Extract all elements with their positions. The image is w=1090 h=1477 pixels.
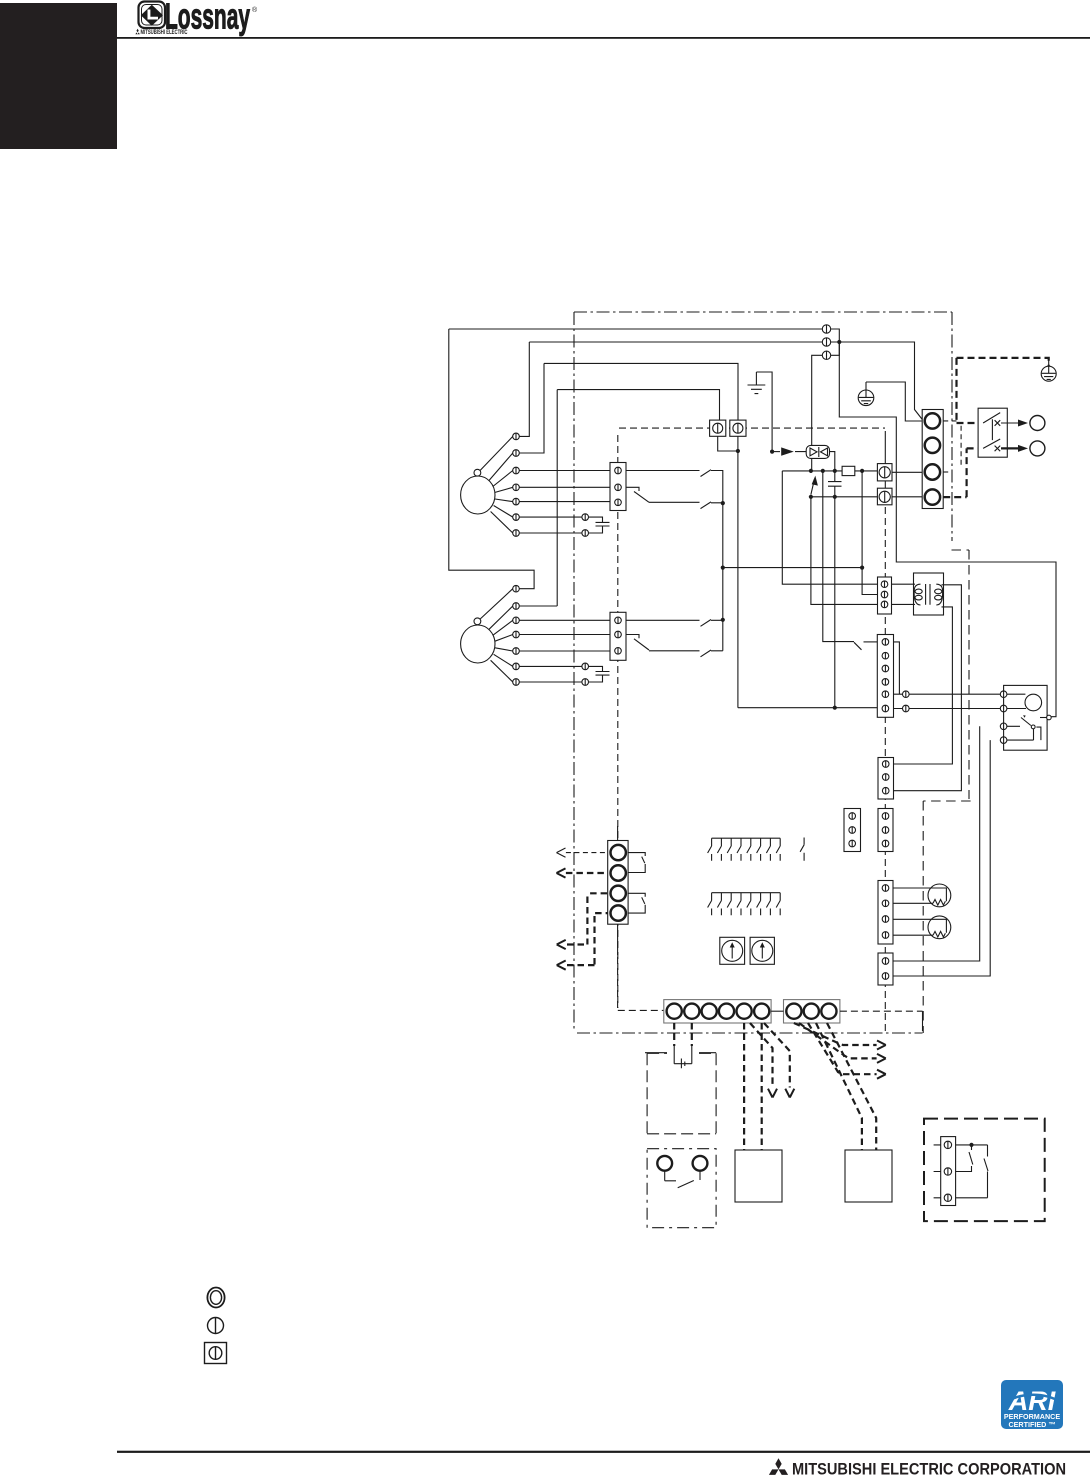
wire to damper feed — [839, 342, 1056, 717]
dashed links CNM to relay — [943, 421, 961, 472]
ground symbol G1 — [748, 372, 766, 394]
M1 terminal 4 — [513, 484, 520, 491]
damper motor circle — [1025, 694, 1042, 711]
single switch — [800, 838, 804, 861]
remote jumper wires — [674, 1023, 692, 1046]
M2 terminal 4 — [513, 631, 520, 638]
varistor Z1 — [795, 445, 835, 471]
M2 phase riser — [556, 390, 558, 606]
M1 leads fanout — [480, 436, 513, 533]
connector CNB — [878, 758, 894, 800]
wire ground to diode node — [756, 372, 772, 452]
DIP switch row 1 — [708, 838, 781, 861]
M1 capacitor wires — [519, 517, 602, 533]
phase rails into fuse squares — [544, 363, 738, 420]
main connector CNM — [922, 410, 943, 509]
motor M1 body — [461, 476, 495, 514]
legend connector circle — [207, 1288, 224, 1308]
RC square terminal U1 — [877, 464, 892, 481]
M2 wires to CN2 — [519, 620, 610, 651]
wire T3 — [812, 342, 840, 471]
rotary switch SW1 — [720, 937, 745, 964]
capacitor C2 — [596, 672, 610, 676]
fuse square F1 — [710, 420, 726, 436]
Mitsubishi Electric small wordmark — [135, 29, 187, 36]
relay block CN4 — [617, 826, 619, 955]
header rule — [117, 37, 1090, 39]
rotary switch SW2 — [750, 937, 774, 964]
power terminal 2 — [822, 338, 830, 346]
damper rail — [738, 707, 877, 709]
switch arrow contact S1 — [811, 479, 815, 495]
M1 terminal 1 — [513, 433, 520, 440]
M1 terminal 3 — [513, 467, 520, 474]
M2 leads fanout — [480, 589, 513, 682]
power terminal 1 — [822, 325, 830, 333]
M2 terminal 7 — [513, 679, 520, 686]
transformer T1 — [914, 573, 944, 615]
remote switch — [665, 1171, 700, 1188]
jumper symbol — [645, 1046, 716, 1068]
thermistor connector CNS — [878, 881, 893, 945]
M2 terminal 3 — [513, 617, 520, 624]
svg-text:MITSUBISHI ELECTRIC CORPORATIO: MITSUBISHI ELECTRIC CORPORATION — [792, 1460, 1066, 1477]
arrow contact — [772, 451, 780, 453]
strip link wire — [771, 1010, 783, 1012]
M1 wires to risers — [519, 342, 529, 436]
svg-text:CERTIFIED ™: CERTIFIED ™ — [1008, 1420, 1055, 1429]
box S2 — [845, 1150, 892, 1202]
capacitor C2 terminals — [582, 663, 589, 670]
U1/U2 joins — [885, 431, 922, 497]
wire G2 to connector — [866, 382, 922, 421]
DIP switch row 2 — [708, 893, 781, 916]
damper aux contact — [1047, 715, 1052, 720]
damper actuator DM — [1004, 685, 1048, 750]
terminal strip TBY — [784, 1000, 840, 1023]
motor M2 top cap — [474, 618, 481, 625]
transformer wires — [892, 584, 916, 604]
M2 terminal 6 — [513, 663, 520, 670]
bold dashed drops to box S1 — [744, 1023, 877, 1150]
motor M2 body — [461, 625, 495, 663]
resistor R1 — [842, 466, 855, 475]
wire F1/F2 join — [718, 436, 738, 707]
wire T2 right to connector — [831, 342, 923, 420]
junction — [837, 340, 841, 344]
thermistor TH2 — [893, 919, 933, 935]
terminal strip TBX — [664, 1000, 771, 1023]
ARI certification logo — [1001, 1380, 1063, 1429]
capacitor C3 — [828, 471, 842, 497]
external box R3 — [924, 1119, 1045, 1222]
M2 terminal 2 — [513, 603, 520, 610]
blade CN6 pin1 — [854, 642, 862, 650]
M2 terminal 5 — [513, 648, 520, 655]
connector CNA pair — [844, 809, 861, 852]
relay outputs — [1001, 422, 1018, 424]
Lossnay logo mark — [139, 2, 166, 29]
wire L2 — [529, 341, 822, 343]
primary top rail — [782, 470, 877, 472]
R3 connector — [941, 1137, 956, 1206]
thermistor TH1 — [893, 888, 933, 903]
outer unit boundary (dash-dot) — [574, 312, 952, 1033]
box S1 — [735, 1150, 782, 1202]
dashed wire to border — [840, 1010, 923, 1012]
wire T1 right — [831, 329, 840, 342]
connector CN2 — [610, 612, 626, 660]
dashed box R1 — [647, 1053, 716, 1134]
svg-text:®: ® — [252, 6, 258, 14]
legend fuse terminal — [205, 1343, 227, 1364]
connector CN1 — [610, 463, 626, 511]
CNP wires to damper — [893, 726, 990, 976]
arrows to remote (left) — [566, 852, 608, 854]
CN1 output wires and switches — [626, 470, 723, 651]
ground circle G2 — [858, 382, 874, 406]
inner control board boundary (dashed) — [618, 428, 886, 1031]
capacitor C1 — [596, 522, 610, 526]
connector CN6 — [877, 635, 893, 718]
RC square terminal U2 — [877, 488, 892, 505]
CN6 right wires — [894, 642, 900, 694]
M1 terminal 6 — [513, 514, 520, 521]
CN4 relay loops — [628, 853, 645, 873]
right arrowheads — [877, 1041, 886, 1050]
Mitsubishi three-diamond mark — [769, 1458, 788, 1475]
drop x822 to CN6 — [823, 471, 854, 642]
power terminal 3 — [822, 351, 830, 359]
footer rule — [117, 1451, 1090, 1453]
rail dots — [809, 469, 813, 473]
R3 wiring — [934, 1145, 941, 1198]
damper switch — [1007, 718, 1034, 741]
M1 terminal 5 — [513, 498, 520, 505]
long drop to damper rail — [834, 497, 836, 708]
ground circle G3 — [1041, 359, 1056, 381]
M2 capacitor wires — [519, 666, 602, 682]
node riser x862 — [862, 471, 877, 595]
rail y567 — [723, 567, 862, 569]
capacitor C1 terminals — [582, 514, 589, 521]
black corner tab — [0, 3, 117, 149]
relay box K1 — [978, 408, 1007, 457]
svg-text:MITSUBISHI ELECTRIC: MITSUBISHI ELECTRIC — [141, 29, 188, 36]
M1 wires to CN1 — [519, 471, 610, 502]
transformer connector CNT — [878, 577, 892, 614]
junction dots — [721, 501, 725, 505]
wire L1 top — [449, 328, 823, 330]
fuse square F2 — [730, 420, 746, 436]
M2 terminal 1 — [513, 585, 520, 592]
primary bottom rail — [811, 496, 878, 498]
remote circles — [657, 1156, 707, 1171]
M1 terminal 7 — [513, 530, 520, 537]
CN2 output wires and switches — [626, 620, 723, 627]
motor M1 top cap — [474, 469, 481, 476]
connector CNP — [878, 953, 893, 985]
varistor node dot — [770, 450, 774, 454]
legend terminal — [208, 1318, 224, 1334]
M1 terminal 2 — [513, 450, 520, 457]
remote controller box R2 — [647, 1149, 716, 1228]
down arrowheads — [768, 1089, 777, 1098]
M2 power wires — [449, 329, 534, 589]
rail left riser to CNT pin1 — [782, 471, 877, 584]
